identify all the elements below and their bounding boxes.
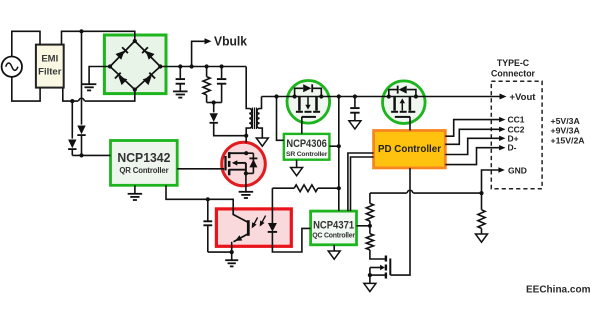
node Q1 drain (244, 151, 248, 155)
wire clamp diode to drain (214, 123, 247, 136)
wire EMI filter top to bridge (62, 31, 135, 44)
SR MOSFET circle Q2 outline (287, 81, 330, 124)
diode D6 aux left (68, 140, 76, 150)
bridge rectifier box (104, 35, 166, 94)
transformer T1 secondary winding (257, 109, 260, 129)
wire DC bulk rail (160, 66, 246, 68)
wire PD pin CC2 (445, 129, 499, 144)
diode D11 optocoupler LED (268, 209, 277, 246)
wire snubber bottom (207, 103, 222, 113)
node bridge top (133, 39, 137, 43)
wire secondary bottom lead (260, 128, 263, 138)
capacitor C1 bulk (176, 79, 185, 84)
node Q5 source (368, 273, 372, 277)
resistor R4 divider top (366, 203, 373, 221)
node load switch left (387, 94, 391, 98)
wire EMI filter bottom to bridge (63, 88, 135, 102)
label CC2 (508, 124, 525, 134)
node junction VBUS drop (337, 94, 341, 98)
node junction snubber C (220, 64, 224, 68)
arrow Vbulk (205, 38, 212, 44)
node junction divider (368, 224, 372, 228)
diode D2 bridge upper-right (142, 47, 154, 59)
wire AC bottom to EMI filter (12, 77, 40, 101)
wire PD bottom pin to discharge gate (390, 168, 410, 275)
wire bulk cap lead (179, 67, 181, 92)
transistor Q2 SR MOSFET (296, 97, 320, 117)
resistor R3 discharge (478, 210, 485, 229)
diode D3 bridge lower-left (115, 73, 127, 85)
wire PD pin D+ (445, 138, 499, 154)
AC source V1 (2, 56, 22, 76)
resistor R5 divider bottom (366, 234, 373, 250)
svg-text:TYPE-C: TYPE-C (497, 58, 530, 68)
wire divider to Q5 drain (370, 250, 385, 259)
svg-text:+Vout: +Vout (510, 92, 537, 103)
wire GND resistor leads (481, 193, 483, 234)
wire Q5 source to ground (369, 275, 371, 283)
node junction aux (79, 153, 83, 157)
arrow CC1 (499, 117, 505, 122)
wire SR diode loop (295, 88, 322, 96)
svg-text:QC Controller: QC Controller (312, 233, 355, 240)
wire primary bottom lead (246, 128, 249, 142)
node junction LED resistor (337, 186, 341, 190)
node junction output cap (353, 94, 357, 98)
capacitor C4 feedback (203, 221, 212, 225)
node junction snubber R (205, 64, 209, 68)
arrow CC2 (499, 127, 505, 132)
node junction Vbulk tap (190, 64, 194, 68)
node bridge right (158, 64, 162, 68)
diode D10 Q1 body (246, 153, 258, 173)
controller U5 NCP4371 box (311, 211, 357, 245)
ground NCP4371 (328, 251, 340, 259)
node junction bulk cap (178, 64, 182, 68)
label Vbulk (214, 34, 247, 48)
wire VBUS drop to NCP4371 (338, 97, 340, 212)
diode D8 SR body (303, 84, 312, 92)
wire VBUS to NCP4306 left pin (277, 97, 284, 141)
node junction bottom rail (70, 99, 74, 103)
node Q1 source (244, 171, 248, 175)
node bridge bottom (133, 88, 137, 92)
wire NCP1342 ground lead (134, 185, 136, 193)
label +9V/3A (551, 126, 581, 136)
wire aux to NCP1342 (72, 154, 110, 156)
wire PD pin CC1 (445, 120, 499, 137)
ground bridge left (82, 84, 97, 90)
node junction FB cap (206, 197, 210, 201)
wire Vbulk tap (192, 41, 205, 66)
arrow D- (499, 145, 505, 150)
node load switch right (414, 94, 418, 98)
transistor Q1 primary MOSFET (226, 152, 246, 175)
label CC1 (508, 115, 525, 125)
wire NCP4371 right pin (357, 225, 370, 227)
svg-text:EEChina.com: EEChina.com (526, 285, 591, 296)
ground Q5 (364, 283, 376, 291)
node junction primary drain (244, 134, 248, 138)
svg-text:+5V/3A: +5V/3A (551, 116, 581, 126)
wire divider middle (369, 221, 371, 234)
resistor R2 LED series (294, 185, 318, 192)
wire NCP4306 right pin (329, 145, 338, 147)
transistor Q3 load switch MOSFET (391, 97, 415, 117)
wire load switch gate to PD controller (409, 117, 411, 131)
wire PD left pin upper to NCP4371 (348, 153, 374, 211)
wire Q1 source to ground (245, 173, 247, 191)
label GND (508, 166, 527, 176)
wire SR gate to NCP4306 (301, 117, 303, 134)
label EEChina.com (526, 285, 591, 296)
controller U3 NCP4306 box (284, 134, 330, 160)
optocoupler U4 box (216, 209, 291, 246)
TYPE-C connector dashed box (491, 81, 542, 188)
wire bridge left node to ground (89, 67, 110, 84)
node junction top rail (79, 29, 83, 33)
diode D5 aux right (77, 125, 85, 135)
svg-text:Vbulk: Vbulk (214, 34, 247, 48)
svg-text:+9V/3A: +9V/3A (551, 126, 581, 136)
svg-text:PD Controller: PD Controller (378, 143, 441, 155)
ground NCP4306 (291, 168, 303, 176)
label NCP4371 (312, 219, 355, 239)
wire GND rail (370, 190, 482, 193)
diode D9 load switch body (398, 86, 407, 94)
node SR left (293, 94, 297, 98)
load switch MOSFET circle Q3 outline (383, 81, 426, 124)
wire aux rail left (71, 101, 73, 155)
wire secondary VBUS rail (262, 96, 500, 98)
label +5V/3A (551, 116, 581, 126)
optocoupler photon arrows (249, 216, 265, 230)
svg-text:+15V/2A: +15V/2A (551, 135, 586, 145)
wire load switch diode loop (389, 90, 416, 97)
capacitor C2 snubber (217, 79, 226, 84)
transformer T1 core (252, 108, 256, 130)
transistor Q4 optocoupler phototransistor (232, 209, 249, 246)
node bridge left (108, 64, 112, 68)
node SR right (319, 94, 323, 98)
svg-text:SR Controller: SR Controller (286, 151, 328, 158)
svg-text:GND: GND (508, 166, 527, 176)
arrow +Vout (500, 94, 507, 100)
ground secondary (256, 138, 268, 146)
arrow GND (498, 167, 504, 172)
ground output cap (349, 121, 361, 129)
wire PD pin D- (445, 148, 499, 165)
wire bridge diamond (110, 41, 160, 90)
svg-text:CC1: CC1 (508, 115, 525, 125)
PD Controller U6 box (374, 131, 446, 168)
svg-text:EMI: EMI (41, 54, 58, 65)
transistor Q5 discharge MOSFET (370, 256, 390, 279)
arrow D+ (499, 136, 505, 141)
primary MOSFET circle Q1 outline (222, 142, 266, 186)
wire LED anode to divider (272, 188, 338, 209)
wire NCP4306 ground lead (296, 160, 298, 168)
wire PD left pin lower to NCP4371 (351, 157, 374, 211)
node junction NCP4306 pin (337, 144, 341, 148)
wire snubber R lead (206, 67, 208, 103)
wire optocoupler cap leads (207, 199, 209, 252)
svg-text:NCP1342: NCP1342 (117, 150, 170, 165)
label D+ (508, 133, 519, 143)
label +15V/2A (551, 135, 586, 145)
svg-text:NCP4306: NCP4306 (286, 138, 327, 150)
svg-text:NCP4371: NCP4371 (313, 219, 354, 231)
ground optocoupler (225, 260, 238, 266)
wire optocoupler emitter to ground (208, 246, 232, 259)
svg-text:Filter: Filter (38, 67, 62, 78)
node junction emitter (230, 250, 234, 254)
controller U1 NCP1342 box (111, 141, 178, 186)
diode D7 clamp (210, 113, 218, 123)
wire secondary top lead (260, 97, 262, 109)
label D- (508, 143, 517, 153)
wire divider top (369, 193, 371, 203)
svg-text:QR Controller: QR Controller (119, 166, 168, 175)
label NCP4306 (286, 138, 328, 158)
node junction GND rail (479, 191, 483, 195)
wire primary top lead (246, 67, 249, 109)
wire output cap leads (354, 97, 356, 121)
ground NCP1342 (128, 194, 142, 200)
label NCP1342 (117, 150, 170, 175)
diode D1 bridge upper-left (115, 47, 127, 59)
wire aux rail right (81, 31, 83, 155)
ground bulk cap (173, 91, 188, 97)
EMI filter box (36, 45, 64, 88)
resistor R1 snubber (203, 77, 210, 95)
ground GND resistor (476, 234, 488, 242)
capacitor C3 output (350, 108, 359, 113)
wire AC top to EMI filter (12, 31, 40, 56)
label +Vout (510, 92, 537, 103)
wire NCP1342 FB to optocoupler (166, 185, 233, 209)
svg-text:Connector: Connector (491, 69, 536, 79)
wire snubber C lead (221, 67, 223, 103)
wire NCP4371 ground lead (333, 245, 335, 251)
node junction VBUS sense (274, 94, 278, 98)
label PD Controller (378, 143, 441, 155)
transformer T1 primary winding (249, 109, 252, 129)
svg-text:D-: D- (508, 143, 517, 153)
wire GND riser to connector (482, 170, 499, 193)
label TYPE-C Connector (491, 58, 536, 79)
label EMI Filter (38, 54, 62, 78)
node junction snubber (212, 100, 216, 104)
diode D4 bridge lower-right (143, 73, 155, 85)
wire LED cathode to NCP4371 (272, 228, 310, 252)
ground Q1 source (239, 192, 254, 198)
wire NCP1342 gate out to Q1 (177, 168, 224, 170)
